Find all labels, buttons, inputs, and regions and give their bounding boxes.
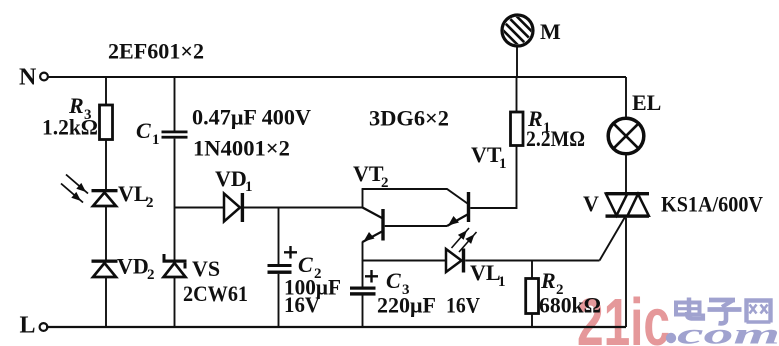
svg-text:2: 2 — [147, 267, 155, 283]
wire R2 to bottom rail — [531, 314, 533, 328]
svg-text:R: R — [540, 268, 556, 293]
svg-text:V: V — [583, 191, 599, 216]
watermark char 子 — [708, 300, 742, 323]
wire R2 stem — [531, 261, 533, 279]
resistor R3 — [42, 93, 113, 140]
svg-text:1: 1 — [499, 156, 507, 172]
svg-text:220μF: 220μF — [377, 293, 436, 318]
wire VT2 collector up — [362, 189, 364, 209]
wire C3 stem — [362, 261, 364, 288]
zener VS — [163, 254, 249, 306]
node L terminal — [20, 313, 48, 339]
capacitor C2 — [268, 246, 342, 317]
triac V — [583, 191, 763, 218]
svg-text:1: 1 — [245, 179, 253, 195]
svg-text:0.47μF 400V: 0.47μF 400V — [192, 105, 311, 130]
wire C2 column — [278, 208, 280, 265]
wire EL column top — [625, 77, 627, 118]
wire R1 to top rail — [516, 77, 518, 112]
wire C3 to bottom rail — [362, 295, 364, 327]
svg-text:VS: VS — [192, 256, 220, 281]
svg-text:1N4001×2: 1N4001×2 — [193, 136, 290, 161]
svg-text:KS1A/600V: KS1A/600V — [661, 192, 763, 217]
LED VL1 — [446, 228, 506, 290]
wire VD1 to VT2 junction — [244, 207, 363, 209]
watermark .com — [666, 318, 779, 346]
resistor R1 — [511, 106, 586, 151]
wire collector rail to VT1 — [362, 189, 468, 204]
diode VD1 — [215, 166, 253, 222]
svg-text:2: 2 — [146, 195, 154, 211]
wire triac to bottom rail — [625, 218, 627, 327]
svg-text:EL: EL — [632, 90, 661, 115]
wire VL2 to VD2 — [105, 206, 107, 260]
wire VD2 to bottom rail — [105, 277, 107, 327]
svg-text:M: M — [540, 19, 561, 44]
transistor VT1 — [447, 142, 507, 226]
wire emitter line to VL1 — [363, 260, 447, 262]
wire bottom rail — [46, 326, 626, 328]
wire triac gate — [600, 217, 626, 261]
svg-text:1.2kΩ: 1.2kΩ — [42, 115, 98, 140]
svg-text:2CW61: 2CW61 — [183, 281, 248, 306]
node N terminal — [19, 65, 48, 91]
svg-text:1: 1 — [152, 132, 160, 148]
svg-text:3DG6×2: 3DG6×2 — [369, 106, 449, 131]
wire C1 column top — [174, 77, 176, 131]
capacitor C3 — [350, 268, 480, 318]
svg-text:N: N — [19, 65, 37, 91]
svg-text:C: C — [298, 252, 313, 277]
resistor R2 — [526, 268, 601, 318]
wire R3 to VL2 — [105, 140, 107, 190]
watermark char 电 — [676, 298, 703, 319]
watermark 21ic — [577, 285, 670, 346]
svg-text:2EF601×2: 2EF601×2 — [108, 39, 204, 64]
svg-text:VD: VD — [215, 166, 247, 191]
wire C2 to bottom rail — [278, 274, 280, 327]
svg-text:1: 1 — [498, 274, 506, 290]
svg-text:L: L — [20, 313, 36, 339]
transistor VT2 — [353, 161, 389, 242]
capacitor C1 — [136, 118, 188, 148]
wire VT2 base to VT1 emitter — [385, 225, 447, 227]
svg-text:VL: VL — [118, 181, 149, 206]
svg-text:VL: VL — [470, 260, 501, 285]
diode VD2 — [92, 254, 155, 284]
wire VS to bottom rail — [174, 277, 176, 327]
wire VS node to VD1 — [175, 207, 225, 209]
svg-text:2.2MΩ: 2.2MΩ — [526, 126, 585, 151]
svg-text:VD: VD — [117, 254, 149, 279]
svg-text:16V: 16V — [446, 293, 480, 318]
wire VL1 to gate corner — [465, 260, 599, 262]
motor M — [501, 15, 561, 47]
wire top rail — [48, 76, 626, 78]
svg-text:C: C — [136, 118, 151, 143]
svg-text:C: C — [386, 268, 401, 293]
svg-text:VT: VT — [353, 161, 384, 186]
wire C1 to VS — [174, 139, 176, 260]
svg-text:VT: VT — [471, 142, 502, 167]
svg-text:16V: 16V — [284, 292, 320, 317]
watermark char 网 — [747, 301, 771, 323]
wire VT2 emitter down — [362, 242, 364, 262]
wire R3 column top — [105, 77, 107, 106]
photodiode VL2 — [61, 175, 154, 212]
wire EL to triac — [625, 153, 627, 193]
wire motor M stem — [516, 47, 518, 77]
lamp EL — [608, 90, 661, 154]
svg-text:680kΩ: 680kΩ — [539, 293, 601, 318]
wire VT1 base to R1 — [470, 146, 516, 209]
